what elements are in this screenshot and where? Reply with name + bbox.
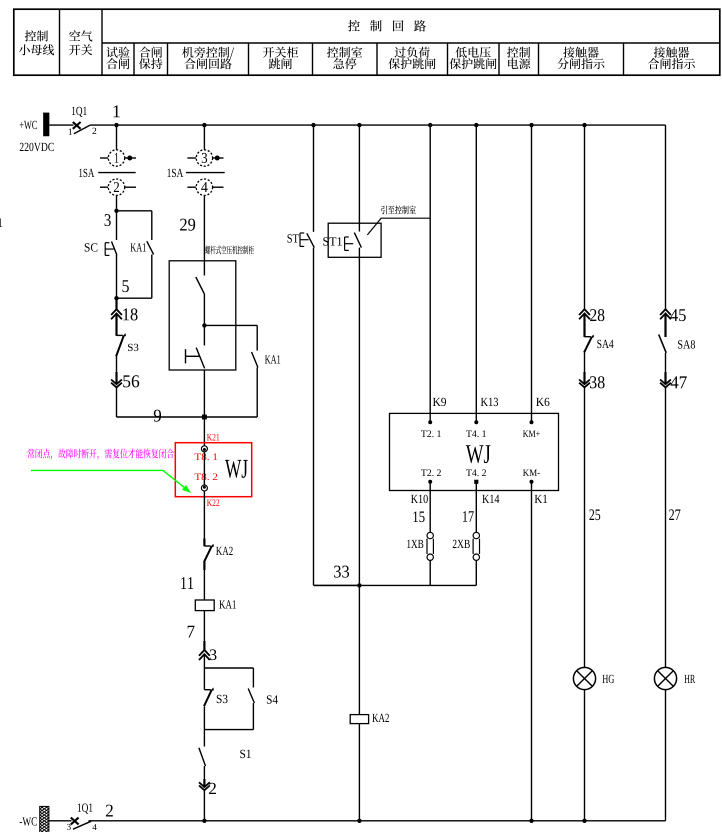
node 25 label	[589, 509, 600, 520]
node 9 (square)	[202, 415, 207, 420]
wire to cabinet junction	[203, 294, 205, 346]
label WJ left	[225, 460, 248, 478]
wire T2.2 to strap 1XB	[429, 482, 431, 533]
header cell 机旁控制/合闸回路	[182, 47, 234, 59]
wire bus- left stub	[49, 820, 72, 822]
thick stub 28-SA4	[583, 313, 585, 337]
node 5	[114, 296, 118, 300]
wire S3 to connector 56	[116, 356, 118, 384]
label ST	[287, 234, 298, 242]
pushbutton ST1 blade	[354, 233, 361, 248]
wire to S3	[116, 313, 118, 335]
breaker 1Q1 top blade	[74, 125, 90, 134]
junction top bus x=584	[582, 123, 586, 127]
wire bottom bus	[89, 820, 666, 822]
thick stub 18-S3	[115, 313, 117, 335]
node 3	[114, 209, 118, 213]
split rail top	[204, 667, 253, 669]
thick stub SA4-38	[583, 372, 585, 384]
wire KM- K1 to bottom bus	[531, 482, 533, 821]
terminal block -WC (hatched)	[38, 798, 51, 832]
strap 2XB	[473, 532, 479, 538]
wire SC to node 5	[116, 255, 118, 299]
leader to control room	[367, 218, 430, 235]
contact SA4	[585, 336, 591, 338]
relay WJ (right) box	[390, 413, 559, 490]
pushbutton ST actuator	[299, 233, 301, 246]
node 33	[357, 583, 361, 587]
label +WC	[20, 121, 37, 129]
bus node33 to XB straps	[314, 584, 477, 586]
thick stub 45-SA8	[664, 313, 666, 337]
coil KA1	[195, 600, 214, 611]
contact S1 blade	[199, 748, 206, 766]
label KA1 seal-in	[131, 243, 146, 251]
pin label T2.2	[421, 469, 441, 476]
cabinet pushbutton actuator	[185, 349, 187, 363]
wire KA1 parallel down	[256, 368, 258, 418]
header table frame	[14, 9, 720, 75]
compressor cabinet box	[169, 261, 236, 370]
wire cabinet to node 9	[203, 370, 205, 418]
green leader arrow	[31, 470, 184, 487]
wire lamp HR to bottom bus	[665, 690, 667, 821]
thick stub node5-18	[115, 299, 117, 309]
switch 1SA contact 3 circle	[196, 150, 212, 166]
switch 1SA contact 4 circle	[196, 179, 212, 195]
wire node3 right branch	[117, 210, 152, 212]
connector 3 (plug up)	[199, 650, 210, 656]
wire top to 1SA second	[203, 125, 205, 149]
pin 3	[67, 824, 71, 830]
thick stub above connector 2	[203, 779, 205, 787]
pin 2	[92, 128, 96, 134]
junction top bus x=204	[202, 123, 206, 127]
wire SA4 to connector 38	[584, 353, 586, 385]
thick stub SA8-47	[664, 372, 666, 384]
wire coil to node 7	[203, 611, 205, 650]
node 15 label	[413, 511, 424, 522]
junction bottom bus x=584	[582, 819, 586, 823]
strap 1XB	[427, 532, 433, 538]
cropped node 1 at left edge	[0, 218, 2, 227]
label K9	[433, 398, 446, 406]
wire top bus	[90, 124, 666, 126]
wire to S3/S4 split	[203, 654, 205, 668]
label 1SA middle	[168, 169, 184, 177]
thick stub S3-56	[115, 372, 117, 384]
lamp HG	[573, 667, 595, 689]
pushbutton ST blade	[307, 233, 315, 247]
header cell 接触器分闸指示	[563, 47, 598, 58]
annotation 常闭点 magenta	[27, 449, 173, 460]
pin 4	[93, 824, 97, 830]
wire strap 1XB to bus 33	[429, 560, 431, 585]
node 17 label	[463, 511, 474, 522]
pin K21 terminal circle	[201, 446, 207, 452]
ST1 remote box	[328, 223, 381, 257]
label 引至控制室	[381, 205, 416, 214]
S4 branch wire	[252, 668, 254, 688]
breaker 1Q1 bottom X mark	[71, 818, 79, 825]
pin dot KM-	[530, 480, 534, 484]
wire node9 to relay WJ	[203, 417, 205, 446]
label 1SA left	[79, 169, 94, 177]
connector 2 (plug down)	[199, 782, 210, 787]
pin label T2.1	[421, 430, 441, 437]
junction bottom bus x=359	[357, 819, 361, 823]
wire 1SA to node 3	[116, 196, 118, 211]
wire to S3 lower	[203, 668, 205, 690]
wire 47 down to lamp HR	[665, 387, 667, 667]
pushbutton SC actuator	[104, 243, 106, 256]
label 220VDC	[20, 143, 54, 151]
junction top bus x=359	[357, 123, 361, 127]
wire top to ST1	[358, 125, 360, 231]
label K6	[536, 398, 549, 406]
wire K9 column	[429, 125, 431, 422]
wire K22 down to KA2	[203, 491, 205, 546]
pin K21 label	[207, 434, 219, 441]
switch 1SA contact 1 circle	[108, 150, 124, 166]
header cell 控制室急停	[327, 47, 362, 58]
breaker 1Q1 top X mark	[73, 122, 81, 129]
wire K6 column	[531, 125, 533, 422]
wire between WJ pins	[203, 452, 205, 485]
label -WC	[20, 817, 37, 825]
wire 1SA-4 down	[203, 196, 205, 276]
branch to KA1 parallel contact	[204, 324, 257, 326]
junction bottom bus x=204	[202, 819, 206, 823]
breaker 1Q1 bottom blade	[73, 821, 91, 829]
cabinet NO contact blade	[196, 277, 205, 294]
switch 1SA bar	[98, 172, 135, 174]
pushbutton SC blade	[112, 242, 117, 255]
wire to SA8	[665, 313, 667, 333]
1SA position indicator dot	[127, 156, 132, 161]
label WJ right	[466, 445, 491, 463]
pin label T4.2	[466, 469, 486, 476]
contact KA1 parallel blade	[252, 352, 258, 368]
junction top bus x=313	[311, 123, 315, 127]
wire SA8 to connector 47	[665, 353, 667, 384]
label 螺杆式空压机控制柜	[205, 245, 254, 254]
header cell 控制电源	[507, 47, 530, 58]
wire bus+ left stub	[49, 124, 73, 126]
label K10	[411, 495, 428, 503]
pin K22 label	[207, 499, 219, 506]
coil KA2	[350, 715, 368, 724]
S4 branch down	[252, 703, 254, 730]
contact S4 blade	[248, 689, 254, 704]
thick stub above connector 3	[203, 641, 205, 650]
pin dot KM+	[530, 420, 534, 424]
header cell 低电压保护跳闸	[456, 47, 491, 58]
wire node33 to KA2 coil	[358, 585, 360, 714]
wire 56 down to node 9 row	[116, 387, 118, 417]
1SA position indicator dot 2	[215, 156, 220, 161]
pin label T8.1	[195, 453, 218, 460]
junction top bus x=476	[474, 123, 478, 127]
wire ST1 down to node 33	[358, 248, 360, 586]
header cell 空气开关	[69, 30, 92, 41]
wire KA1 branch down to node 5	[151, 255, 153, 299]
pin K22 terminal circle	[201, 485, 207, 491]
junction top bus x=531	[529, 123, 533, 127]
label K14	[482, 495, 499, 503]
split rail bottom	[204, 729, 253, 731]
pin label T4.1	[466, 430, 486, 437]
wire top to ST	[313, 125, 315, 232]
label 1Q1 top	[72, 107, 87, 117]
wire KA2 coil to bottom bus	[358, 724, 360, 821]
connector 38 (plug down)	[579, 380, 590, 385]
cabinet junction dot	[202, 323, 206, 327]
wire node3 to SC	[116, 211, 118, 240]
relay WJ (left) red box	[175, 443, 251, 497]
header cell 合闸保持	[139, 47, 162, 58]
label K13	[481, 398, 498, 406]
lamp HR	[654, 667, 676, 689]
label 1Q1 bottom	[78, 804, 93, 814]
wire KA2 to node 11	[203, 562, 205, 600]
header title 控制回路	[348, 20, 426, 32]
contact S3 upper	[117, 334, 123, 336]
header cell 过负荷保护跳闸	[395, 47, 430, 58]
wire connector2 to bottom bus	[203, 790, 205, 821]
contact KA2	[204, 545, 210, 547]
wire to SA4	[584, 313, 586, 336]
node 29 label	[180, 219, 195, 231]
thick stub above KA2 contact	[203, 539, 205, 547]
wire to S1	[203, 730, 205, 747]
label SC	[85, 243, 98, 251]
switch 1SA bar 2	[186, 172, 225, 174]
terminal block +WC (solid)	[43, 113, 49, 137]
pin dot T2.1	[428, 420, 432, 424]
wire top to connector 28	[584, 125, 586, 309]
connector 18 (plug up)	[116, 298, 118, 309]
junction bottom bus x=531	[529, 819, 533, 823]
wire ST down to node 33 row	[313, 248, 315, 586]
header cell 试验合闸	[106, 47, 129, 58]
wire top corner to connector 45	[665, 125, 667, 309]
pin square T4.2	[474, 480, 478, 484]
wire node1 down	[116, 125, 118, 149]
node 1	[114, 123, 118, 127]
wire T4.2 to strap 2XB	[475, 482, 477, 533]
connector 45 (plug up)	[660, 309, 671, 315]
pin 1	[69, 129, 72, 135]
connector 56 (plug down)	[111, 380, 122, 385]
label K1	[535, 495, 548, 503]
label ST1	[323, 237, 341, 245]
header cell 开关柜跳闸	[263, 47, 298, 58]
header cell 控制小母线	[25, 30, 48, 41]
wire lamp HG to bottom bus	[584, 690, 586, 821]
contact S3 lower	[204, 689, 210, 691]
connector 28 (plug up)	[579, 309, 590, 315]
switch 1SA contact 2 circle	[108, 179, 124, 195]
pin dot T2.2	[428, 480, 432, 484]
node 2 label	[106, 805, 113, 817]
pin dot T4.1	[474, 420, 478, 424]
pushbutton ST1 actuator	[344, 237, 346, 250]
contact SA8 blade	[659, 335, 667, 353]
header cell 接触器合闸指示	[654, 47, 689, 58]
junction top bus x=430	[428, 123, 432, 127]
wire K13 column	[475, 125, 477, 422]
pin label T8.2	[195, 473, 218, 480]
pin label KM-	[523, 469, 540, 476]
wire strap 2XB to bus 33	[475, 560, 477, 585]
connector 47 (plug down)	[660, 380, 671, 385]
node 27 label	[669, 509, 680, 520]
wire S1 to connector 2	[203, 766, 205, 787]
cabinet pushbutton blade	[196, 348, 204, 369]
contact KA1 (seal-in) blade	[147, 241, 154, 254]
pin label KM+	[523, 430, 540, 437]
label KA1 parallel	[265, 355, 280, 363]
thick stub below KA2 contact	[203, 562, 205, 571]
wire 38 down to lamp HG	[584, 387, 586, 667]
wire S3 lower down	[203, 707, 205, 730]
